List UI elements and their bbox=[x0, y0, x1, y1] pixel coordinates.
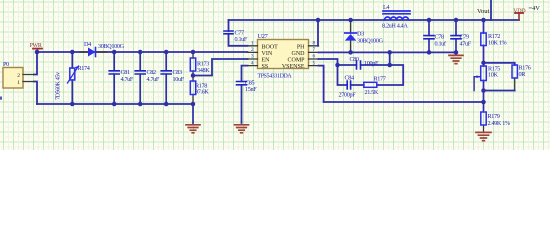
wire P0 pin1 to bottom rail bbox=[34, 82, 37, 105]
junction rail / R173 top bbox=[191, 50, 196, 55]
diode D3 bbox=[345, 20, 384, 52]
wire VSENSE to feedback node bbox=[319, 66, 484, 102]
svg-text:C78: C78 bbox=[435, 34, 445, 41]
svg-text:L4: L4 bbox=[383, 4, 389, 11]
potentiometer R175 bbox=[474, 63, 500, 91]
svg-text:VSENSE: VSENSE bbox=[282, 64, 305, 70]
junction bottom rail / C83 bbox=[164, 102, 169, 107]
svg-text:PWR: PWR bbox=[30, 43, 42, 49]
svg-text:C84: C84 bbox=[345, 74, 355, 81]
junction rail / R174 top bbox=[70, 50, 75, 55]
capacitor C80 bbox=[338, 56, 390, 69]
junction top rail / D3 cathode bbox=[348, 18, 353, 23]
capacitor C79 bbox=[451, 20, 472, 52]
svg-text:4.7uF: 4.7uF bbox=[147, 76, 160, 83]
svg-text:2: 2 bbox=[17, 73, 20, 79]
resistor R176 bbox=[512, 64, 531, 90]
ground under R179 bbox=[476, 132, 491, 140]
wire Vout stub bbox=[490, 0, 492, 20]
background grid bbox=[0, 0, 550, 150]
capacitor C81 bbox=[109, 52, 134, 104]
capacitor C77 boot bbox=[224, 20, 248, 46]
junction bottom rail / C81 bbox=[112, 102, 117, 107]
diode D4 bbox=[80, 41, 125, 57]
svg-text:VDD: VDD bbox=[513, 8, 526, 14]
connector P0 bbox=[3, 61, 34, 88]
svg-text:15nF: 15nF bbox=[245, 86, 257, 93]
svg-text:C82: C82 bbox=[147, 69, 157, 76]
capacitor C84 bbox=[338, 65, 364, 98]
svg-text:348K: 348K bbox=[197, 67, 210, 74]
svg-text:COMP: COMP bbox=[287, 58, 305, 64]
junction GND wire / C78 bottom bbox=[427, 50, 432, 55]
svg-text:TPS54331DDA: TPS54331DDA bbox=[258, 74, 293, 80]
svg-text:0.1uf: 0.1uf bbox=[435, 41, 447, 48]
junction bottom rail / R178 ground bbox=[191, 102, 196, 107]
junction rail / C81 top bbox=[112, 50, 117, 55]
ground G3 at GND rail end bbox=[449, 52, 463, 63]
junction top rail / C79 top bbox=[454, 18, 459, 23]
wire input rail PWR to VIN bbox=[37, 51, 248, 53]
junction top rail / C78 top bbox=[427, 18, 432, 23]
ground under R178 bbox=[186, 104, 200, 133]
power port VDD bbox=[513, 8, 526, 20]
svg-text:BOOT: BOOT bbox=[262, 44, 279, 50]
svg-text:EN: EN bbox=[262, 58, 271, 64]
svg-text:47uF: 47uF bbox=[460, 41, 472, 48]
resistor R178 bbox=[190, 76, 209, 105]
capacitor C82 bbox=[135, 52, 160, 104]
svg-text:4.7uF: 4.7uF bbox=[121, 76, 134, 83]
wire bottom ground rail bbox=[37, 103, 193, 105]
svg-text:100pF: 100pF bbox=[364, 60, 379, 67]
svg-text:0.1uF: 0.1uF bbox=[235, 36, 248, 43]
svg-text:R179: R179 bbox=[488, 113, 500, 120]
svg-text:SS: SS bbox=[262, 64, 269, 70]
svg-text:PH: PH bbox=[297, 44, 305, 50]
junction rail / C82 top bbox=[138, 50, 143, 55]
wire top rail PH node to VDD bbox=[229, 19, 520, 21]
capacitor C78 bbox=[424, 20, 447, 52]
svg-text:GND: GND bbox=[292, 51, 306, 57]
svg-text:1: 1 bbox=[17, 80, 20, 86]
svg-text:R174: R174 bbox=[78, 65, 90, 72]
svg-text:97.6K: 97.6K bbox=[195, 88, 209, 95]
svg-text:=4V: =4V bbox=[529, 5, 541, 12]
wire comp lower branch return bbox=[377, 65, 403, 85]
junction node VSENSE feedback bbox=[481, 100, 486, 105]
svg-text:C83: C83 bbox=[173, 69, 183, 76]
junction GND wire / D3 anode bbox=[348, 50, 353, 55]
wire comp to GND rail bbox=[389, 52, 391, 65]
junction PH node / top rail bbox=[316, 18, 321, 23]
ground under C85 bbox=[235, 125, 249, 133]
svg-text:2.49K 1%: 2.49K 1% bbox=[488, 120, 510, 127]
wire PH pin to top rail bbox=[317, 20, 319, 46]
svg-text:30BQ100G: 30BQ100G bbox=[357, 38, 384, 45]
resistor R177 bbox=[364, 76, 386, 97]
IC U27 TPS54331DDA bbox=[248, 33, 319, 80]
svg-text:VIN: VIN bbox=[262, 51, 273, 57]
junction PWR rail at P0 riser bbox=[35, 50, 40, 55]
stray cropped label at left edge bbox=[0, 97, 2, 100]
svg-text:U27: U27 bbox=[258, 33, 269, 40]
junction node COMP split bbox=[335, 63, 340, 68]
capacitor C83 bbox=[161, 52, 185, 104]
wire GND pin rail bbox=[319, 51, 457, 53]
junction bottom rail / R174 bbox=[70, 102, 75, 107]
svg-text:8.2uH 4.4A: 8.2uH 4.4A bbox=[382, 23, 408, 30]
svg-text:D4: D4 bbox=[84, 41, 91, 48]
resistor R179 bbox=[481, 112, 510, 132]
junction feedback divider bottom node bbox=[481, 88, 486, 93]
junction bottom rail / C82 bbox=[138, 102, 143, 107]
svg-text:C79: C79 bbox=[460, 34, 470, 41]
wire P0 pin2 to rail bbox=[34, 52, 37, 75]
junction rail / C83 top bbox=[164, 50, 169, 55]
wire R176 bottom to column bbox=[484, 90, 515, 92]
junction node EN divider R173/R178 bbox=[191, 73, 196, 78]
svg-text:C80: C80 bbox=[350, 56, 360, 63]
power port PWR bbox=[30, 43, 43, 52]
junction top rail / R172 top bbox=[481, 18, 486, 23]
svg-text:P0: P0 bbox=[3, 61, 9, 68]
svg-text:7D560K 45v: 7D560K 45v bbox=[56, 72, 62, 100]
wire COMP to comp network bbox=[319, 59, 338, 65]
svg-text:30BQ100G: 30BQ100G bbox=[98, 43, 125, 50]
junction GND wire / compensation branch bbox=[387, 50, 392, 55]
wire EN node bbox=[193, 59, 248, 76]
junction feedback divider top node bbox=[481, 61, 486, 66]
svg-text:Vout: Vout bbox=[477, 8, 490, 15]
resistor R173 bbox=[190, 52, 210, 77]
svg-text:D3: D3 bbox=[357, 31, 364, 38]
wire divider top to R176 bbox=[484, 63, 515, 65]
varistor R174 bbox=[56, 52, 90, 104]
svg-text:R177: R177 bbox=[374, 76, 386, 83]
junction GND wire / C79 bottom bbox=[454, 50, 459, 55]
wire column VSENSE node to R179 bbox=[483, 91, 485, 111]
resistor R172 bbox=[481, 20, 507, 63]
svg-text:10K: 10K bbox=[488, 71, 498, 78]
svg-text:2700pF: 2700pF bbox=[339, 91, 357, 98]
svg-text:10K 1%: 10K 1% bbox=[488, 40, 507, 47]
svg-text:C81: C81 bbox=[121, 69, 131, 76]
svg-text:21.5K: 21.5K bbox=[365, 89, 379, 96]
inductor L4 bbox=[382, 4, 410, 30]
svg-text:10uF: 10uF bbox=[173, 76, 185, 83]
capacitor C85 bbox=[237, 66, 258, 123]
junction node comp network to GND bbox=[387, 63, 392, 68]
